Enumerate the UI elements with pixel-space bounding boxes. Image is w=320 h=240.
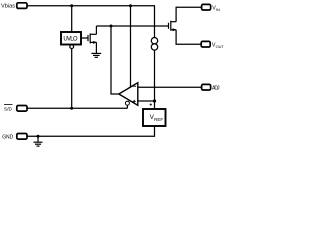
transistor M1 (UVLO pulldown NMOS)	[88, 26, 96, 53]
svg-text:IN: IN	[216, 7, 220, 12]
wire: current source to VREF / op-amp plus	[154, 50, 156, 109]
wire: rail down to op-amp top edge	[130, 6, 132, 88]
block UVLO	[61, 32, 81, 45]
terminal GND	[17, 134, 27, 140]
wire: gate line (M1 drain to pass FET gate)	[96, 25, 168, 27]
wire: S/D up to op-amp bubble	[126, 105, 128, 108]
wire: UVLO bubble down to S/D line	[71, 49, 73, 109]
wire: plus input to reference node	[138, 100, 155, 102]
terminal VOUT	[201, 41, 210, 47]
block VREF	[143, 109, 166, 126]
wire: rail down to UVLO top	[71, 6, 73, 32]
terminal ADJ	[202, 84, 211, 90]
wire: UVLO output to M1 gate	[81, 37, 88, 39]
ground (chassis, on GND line)	[34, 136, 43, 146]
svg-text:OUT: OUT	[216, 44, 225, 49]
svg-text:GND: GND	[2, 134, 13, 140]
wire: minus input to ADJ	[138, 86, 202, 88]
svg-text:REF: REF	[154, 117, 163, 122]
svg-text:UVLO: UVLO	[63, 36, 78, 42]
wire: Q1 source to VOUT	[176, 30, 201, 44]
node: UVLO to S/D junction	[70, 107, 73, 110]
op-amp U1 (error amplifier, pointing left)	[119, 83, 138, 106]
terminal VIN	[202, 4, 211, 10]
M1 source arrow	[93, 41, 97, 44]
wire: op-amp output up to gate line	[111, 26, 119, 94]
node: plus input / VREF / current source	[153, 99, 156, 102]
op-amp minus label	[133, 85, 136, 87]
node: rail to op-amp bias junction	[129, 4, 132, 7]
wire: Vbias top rail	[27, 6, 155, 38]
node: GND line chassis tap	[37, 135, 40, 138]
label + (VREF polarity)	[150, 103, 152, 105]
op-amp plus label	[133, 100, 136, 103]
wire: Q1 drain to VIN	[176, 7, 202, 22]
terminal Vbias	[17, 3, 27, 9]
current source I1	[151, 38, 157, 44]
svg-text:S/D: S/D	[4, 106, 13, 112]
svg-text:Vbias: Vbias	[1, 3, 15, 9]
op-amp shutdown bubble	[125, 101, 129, 105]
terminal S/D	[17, 106, 27, 112]
node: op-amp output to gate line	[110, 25, 113, 28]
wire: S/D line	[27, 107, 127, 109]
UVLO inverting bubble (shutdown output)	[70, 45, 74, 49]
svg-text:ADJ: ADJ	[212, 85, 220, 91]
node: rail to UVLO junction	[70, 4, 73, 7]
Q1 source arrow	[173, 28, 177, 31]
transistor Q1 (pass FET)	[169, 21, 177, 31]
wire: VREF bottom to GND line	[27, 126, 155, 136]
ground (below M1)	[91, 53, 101, 57]
